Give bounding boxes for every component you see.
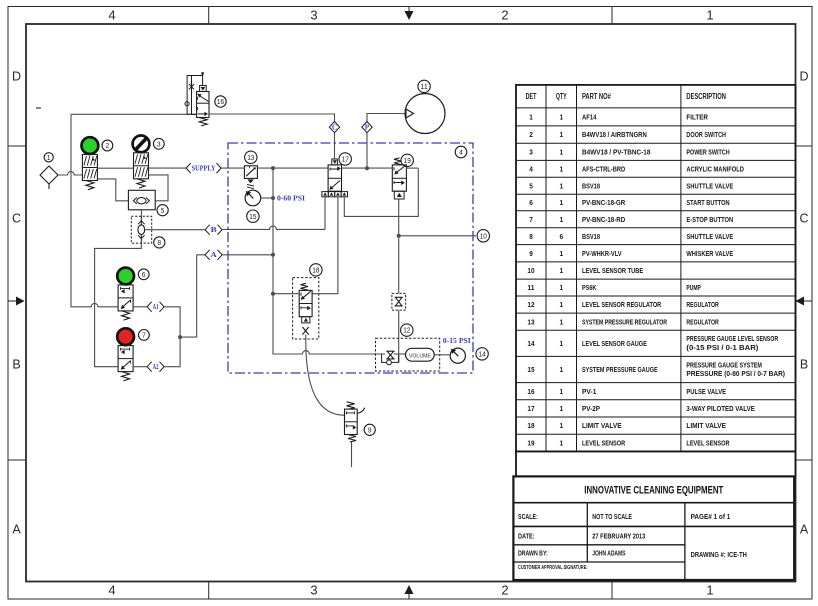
node C xyxy=(329,122,339,133)
flow control inside 12 xyxy=(386,351,394,359)
svg-text:19: 19 xyxy=(527,438,534,447)
gauge 15 (0-60 PSI) xyxy=(245,190,261,206)
svg-text:1: 1 xyxy=(559,215,563,224)
svg-text:B4WV18 / PV-TBNC-18: B4WV18 / PV-TBNC-18 xyxy=(582,147,651,156)
svg-text:3-WAY PILOTED VALVE: 3-WAY PILOTED VALVE xyxy=(686,404,754,413)
valve 3 power switch (black slash knob) xyxy=(133,136,150,153)
wire: shuttle 8 bottom to e-stop valve 7 feed xyxy=(95,243,142,367)
svg-text:DRAWN BY:: DRAWN BY: xyxy=(518,549,548,558)
acrylic manifold boundary 4 xyxy=(228,143,473,373)
svg-text:E-STOP BUTTON: E-STOP BUTTON xyxy=(686,215,733,224)
svg-text:18: 18 xyxy=(527,421,535,430)
svg-text:15: 15 xyxy=(527,365,535,374)
net label B xyxy=(205,225,210,235)
svg-text:15: 15 xyxy=(249,212,256,221)
svg-text:6: 6 xyxy=(142,270,146,279)
svg-text:(0-15 PSI / 0-1 BAR): (0-15 PSI / 0-1 BAR) xyxy=(686,343,758,352)
svg-text:0-15 PSI: 0-15 PSI xyxy=(443,337,471,345)
ref bubble 16 xyxy=(215,96,226,107)
svg-text:1: 1 xyxy=(559,130,563,139)
svg-text:BSV18: BSV18 xyxy=(582,181,601,190)
wire: filter to valve 2 (hop over start-feed riser) xyxy=(58,172,82,175)
svg-text:1: 1 xyxy=(559,249,563,258)
wire: SUPPLY into manifold to regulator 13 xyxy=(221,167,244,169)
svg-text:FILTER: FILTER xyxy=(686,113,708,122)
svg-text:PRESSURE GAUGE SYSTEM: PRESSURE GAUGE SYSTEM xyxy=(686,360,762,369)
svg-text:4: 4 xyxy=(108,583,115,598)
ref bubble 8 xyxy=(154,237,165,248)
svg-text:4: 4 xyxy=(529,164,533,173)
wire: shuttle 8 output to net B label xyxy=(145,229,206,231)
svg-text:PUMP: PUMP xyxy=(686,283,700,292)
svg-text:DET: DET xyxy=(526,92,537,101)
svg-text:10: 10 xyxy=(527,266,534,275)
wire: valve 18 down-curve to whisker valve 9 xyxy=(306,335,345,416)
svg-text:9: 9 xyxy=(529,249,533,258)
net label SUPPLY xyxy=(186,163,191,173)
svg-text:7: 7 xyxy=(529,215,533,224)
svg-text:LEVEL SENSOR: LEVEL SENSOR xyxy=(686,438,730,447)
svg-text:PV-WHKR-VLV: PV-WHKR-VLV xyxy=(582,249,622,258)
svg-text:PULSE VALVE: PULSE VALVE xyxy=(686,387,726,396)
svg-text:2: 2 xyxy=(501,8,508,23)
net label A xyxy=(205,250,210,260)
svg-text:B4WV18 / AIRBTNGRN: B4WV18 / AIRBTNGRN xyxy=(582,130,647,139)
filter 1 xyxy=(40,166,58,184)
svg-text:1: 1 xyxy=(559,181,563,190)
limit valve 18 xyxy=(293,278,319,339)
svg-text:REGULATOR: REGULATOR xyxy=(686,317,719,326)
svg-text:1: 1 xyxy=(559,164,563,173)
svg-text:PV-1: PV-1 xyxy=(582,387,597,396)
svg-text:1: 1 xyxy=(559,147,563,156)
svg-text:1: 1 xyxy=(706,8,713,23)
wire: pump to node P xyxy=(367,114,405,122)
svg-text:BSV18: BSV18 xyxy=(582,232,601,241)
pump 11 xyxy=(405,94,445,134)
wire: gauge 15 to supply riser xyxy=(261,197,273,199)
wire: port 3 down to limit valve 18 right xyxy=(312,197,338,294)
svg-text:PV-BNC-18-GR: PV-BNC-18-GR xyxy=(582,198,626,207)
wire: A1/A2 join to net A riser xyxy=(164,307,180,367)
svg-text:DRAWING #: ICE-TH: DRAWING #: ICE-TH xyxy=(691,550,747,559)
wire: supply riser down to volume control (hops) xyxy=(273,168,303,354)
svg-text:PRESSURE GAUGE LEVEL SENSOR: PRESSURE GAUGE LEVEL SENSOR xyxy=(686,334,778,343)
valve 2 door-switch button (green) xyxy=(82,137,99,154)
wire: start feed riser from valve16 line down to valve 6 (hop at filter wire) xyxy=(71,114,90,306)
svg-text:A2: A2 xyxy=(153,364,159,371)
svg-text:13: 13 xyxy=(527,317,534,326)
wire: valve 16 left port feed line xyxy=(71,113,197,115)
svg-text:D: D xyxy=(799,70,808,84)
svg-text:0-60 PSI: 0-60 PSI xyxy=(277,194,305,202)
ref bubble 14 xyxy=(476,348,488,360)
svg-text:19: 19 xyxy=(404,156,411,165)
svg-text:LEVEL SENSOR REGULATOR: LEVEL SENSOR REGULATOR xyxy=(582,300,662,309)
svg-text:LIMIT VALVE: LIMIT VALVE xyxy=(582,421,622,430)
valve 17 manifold ports xyxy=(322,192,328,197)
svg-text:B: B xyxy=(211,227,218,234)
svg-text:REGULATOR: REGULATOR xyxy=(686,300,719,309)
svg-text:B: B xyxy=(12,358,20,372)
valve 17 3-way piloted valve xyxy=(328,165,341,191)
svg-text:17: 17 xyxy=(527,404,534,413)
svg-text:18: 18 xyxy=(312,266,319,275)
svg-text:1: 1 xyxy=(559,198,563,207)
svg-text:4: 4 xyxy=(108,8,115,23)
svg-text:6: 6 xyxy=(529,198,533,207)
svg-text:AFS-CTRL-BRD: AFS-CTRL-BRD xyxy=(582,164,626,173)
ref bubble 12 xyxy=(401,324,413,336)
svg-text:PV-2P: PV-2P xyxy=(582,404,600,413)
svg-text:1: 1 xyxy=(559,113,563,122)
wire: valve3 right to SUPPLY label xyxy=(149,167,187,169)
valve 16 pilot loop with restrictor and check xyxy=(187,76,203,115)
svg-text:27 FEBRUARY 2013: 27 FEBRUARY 2013 xyxy=(592,532,645,541)
svg-text:2: 2 xyxy=(501,583,508,598)
svg-text:A: A xyxy=(211,252,217,259)
wire: valve 16 output to node C xyxy=(210,114,335,122)
ref bubble 5 xyxy=(157,205,168,216)
ref bubble 6 xyxy=(138,269,149,280)
svg-text:3: 3 xyxy=(310,8,317,23)
svg-text:P: P xyxy=(365,124,370,132)
svg-text:1: 1 xyxy=(47,153,51,162)
svg-text:START BUTTON: START BUTTON xyxy=(686,198,730,207)
svg-text:LEVEL SENSOR GAUGE: LEVEL SENSOR GAUGE xyxy=(582,339,647,348)
svg-text:SHUTTLE VALVE: SHUTTLE VALVE xyxy=(686,232,733,241)
wire: port 4 loop to valve 19 right xyxy=(344,168,418,216)
svg-text:A: A xyxy=(12,523,21,537)
wire: valve3 output down to shuttle 5 right input xyxy=(149,175,169,201)
wire: supply line through valves 17/19 xyxy=(342,167,393,169)
wire: valve 7 out to net A2 xyxy=(133,366,147,368)
valve 16 pulse valve xyxy=(197,92,209,118)
net label A2 xyxy=(147,362,152,372)
title block xyxy=(513,476,794,580)
ref bubble 11 xyxy=(418,80,430,92)
svg-text:1: 1 xyxy=(559,421,563,430)
svg-text:CUSTOMER APPROVAL SIGNATURE:: CUSTOMER APPROVAL SIGNATURE: xyxy=(518,565,588,571)
svg-text:5: 5 xyxy=(529,181,533,190)
svg-text:14: 14 xyxy=(479,350,486,359)
VOLUME stadium label xyxy=(406,348,435,361)
svg-text:1: 1 xyxy=(559,438,563,447)
gauge 14 (0-15 PSI) xyxy=(450,348,465,363)
ref bubble 4 xyxy=(455,146,467,158)
svg-text:DESCRIPTION: DESCRIPTION xyxy=(686,92,726,101)
svg-text:SYSTEM PRESSURE REGULATOR: SYSTEM PRESSURE REGULATOR xyxy=(582,317,667,326)
ref bubble 9 xyxy=(364,424,375,435)
wire: net B to valve 17 port 1 (hop over supply riser) xyxy=(222,226,325,229)
svg-text:1: 1 xyxy=(559,339,563,348)
ref bubble 18 xyxy=(310,264,322,276)
wire: valve2 output down to shuttle 5 left input xyxy=(97,179,128,201)
svg-text:1: 1 xyxy=(559,266,563,275)
svg-text:5: 5 xyxy=(161,206,165,215)
valve 19 xyxy=(392,165,406,191)
svg-text:8: 8 xyxy=(529,232,533,241)
svg-text:PS6K: PS6K xyxy=(582,283,597,292)
svg-text:QTY: QTY xyxy=(556,92,567,101)
svg-text:NOT TO SCALE: NOT TO SCALE xyxy=(592,512,632,521)
whisker valve 9 xyxy=(345,409,358,434)
svg-text:LEVEL SENSOR TUBE: LEVEL SENSOR TUBE xyxy=(582,266,643,275)
ref bubble 7 xyxy=(139,330,150,341)
svg-text:SYSTEM PRESSURE GAUGE: SYSTEM PRESSURE GAUGE xyxy=(582,365,658,374)
svg-text:C: C xyxy=(12,212,21,226)
svg-text:SHUTTLE VALVE: SHUTTLE VALVE xyxy=(686,181,733,190)
svg-text:1: 1 xyxy=(559,365,563,374)
svg-text:C: C xyxy=(332,124,337,132)
svg-text:1: 1 xyxy=(529,113,533,122)
svg-text:PRESSURE (0-80 PSI / 0-7 BAR): PRESSURE (0-80 PSI / 0-7 BAR) xyxy=(686,369,785,378)
ref bubble 19 xyxy=(401,154,413,166)
wire: shuttle 5 to shuttle 8 xyxy=(140,210,142,217)
svg-text:PAGE# 1 of 1: PAGE# 1 of 1 xyxy=(691,512,731,521)
svg-text:1: 1 xyxy=(559,404,563,413)
wire: valve 6 out to net A1 xyxy=(133,306,147,308)
svg-text:A: A xyxy=(800,523,809,537)
svg-text:16: 16 xyxy=(217,97,224,106)
level sensor volume control 12 xyxy=(376,338,440,371)
shuttle valve 5 xyxy=(128,190,155,210)
svg-text:1: 1 xyxy=(706,583,713,598)
svg-text:LEVEL SENSOR: LEVEL SENSOR xyxy=(582,438,626,447)
svg-text:1: 1 xyxy=(559,387,563,396)
parts table xyxy=(516,85,796,452)
svg-text:VOLUME: VOLUME xyxy=(409,353,431,359)
svg-text:INNOVATIVE CLEANING EQUIPMENT: INNOVATIVE CLEANING EQUIPMENT xyxy=(584,485,723,497)
svg-text:PV-BNC-18-RD: PV-BNC-18-RD xyxy=(582,215,626,224)
net label A1 xyxy=(147,302,152,312)
ref bubble 17 xyxy=(339,153,351,165)
ref bubble 10 xyxy=(477,230,489,242)
node P xyxy=(362,122,372,133)
ref bubble 1 xyxy=(44,153,53,162)
valve 7 e-stop button (red) xyxy=(117,328,134,345)
svg-text:DATE:: DATE: xyxy=(518,532,535,541)
svg-text:10: 10 xyxy=(480,231,487,240)
shuttle valve 8 xyxy=(131,216,151,243)
svg-text:SCALE:: SCALE: xyxy=(518,512,538,521)
svg-text:12: 12 xyxy=(403,326,410,335)
wire: valve 19 bottom port down / node 10 branch xyxy=(398,199,400,293)
svg-text:LIMIT VALVE: LIMIT VALVE xyxy=(686,421,726,430)
svg-text:ACRYLIC MANIFOLD: ACRYLIC MANIFOLD xyxy=(686,164,744,173)
svg-text:7: 7 xyxy=(142,331,146,340)
svg-text:C: C xyxy=(799,212,808,226)
wire: node C down to valve 17 pilot xyxy=(334,133,336,159)
svg-text:WHISKER VALVE: WHISKER VALVE xyxy=(686,249,733,258)
svg-text:2: 2 xyxy=(106,141,110,150)
svg-text:16: 16 xyxy=(527,387,534,396)
svg-text:1: 1 xyxy=(559,317,563,326)
wire: node P down to supply line junction xyxy=(366,133,368,169)
svg-text:9: 9 xyxy=(368,425,372,434)
svg-text:12: 12 xyxy=(527,300,534,309)
svg-text:AF14: AF14 xyxy=(582,113,597,122)
wire: volume to gauge 14 xyxy=(434,354,450,356)
svg-text:PART NO#: PART NO# xyxy=(582,92,611,101)
regulator 13 (system pressure regulator) xyxy=(244,166,257,179)
svg-text:11: 11 xyxy=(527,283,535,292)
ref bubble 13 xyxy=(245,151,257,163)
svg-text:14: 14 xyxy=(527,339,535,348)
svg-text:JOHN ADAMS: JOHN ADAMS xyxy=(592,549,625,558)
svg-text:11: 11 xyxy=(421,82,428,91)
svg-text:2: 2 xyxy=(529,130,533,139)
svg-text:B: B xyxy=(800,358,808,372)
svg-text:8: 8 xyxy=(158,238,162,247)
ref bubble 3 xyxy=(153,138,164,149)
svg-text:17: 17 xyxy=(342,155,349,164)
svg-text:1: 1 xyxy=(559,300,563,309)
svg-text:1: 1 xyxy=(559,283,563,292)
needle valve (level sensor line) xyxy=(392,293,406,310)
svg-text:SUPPLY: SUPPLY xyxy=(192,166,216,173)
svg-text:3: 3 xyxy=(310,583,317,598)
svg-text:A1: A1 xyxy=(153,304,159,311)
wire: feed into valve 18 left xyxy=(273,293,299,295)
wire: valve2 upper port to valve3 left (supply chain) xyxy=(97,167,133,169)
svg-text:6: 6 xyxy=(559,232,563,241)
wire: net A to supply riser junction xyxy=(222,254,273,256)
ref bubble 15 xyxy=(247,210,259,222)
wire: regulator out with riser junction xyxy=(257,167,328,169)
valve 6 start button (green) xyxy=(117,268,134,285)
svg-text:13: 13 xyxy=(247,153,254,162)
svg-text:3: 3 xyxy=(157,139,161,148)
svg-text:3: 3 xyxy=(529,147,533,156)
svg-text:4: 4 xyxy=(459,148,463,157)
svg-text:DOOR SWITCH: DOOR SWITCH xyxy=(686,130,726,139)
svg-text:D: D xyxy=(12,70,21,84)
spacer box above title block xyxy=(516,451,796,476)
svg-text:POWER SWITCH: POWER SWITCH xyxy=(686,147,730,156)
ref bubble 2 xyxy=(102,140,113,151)
